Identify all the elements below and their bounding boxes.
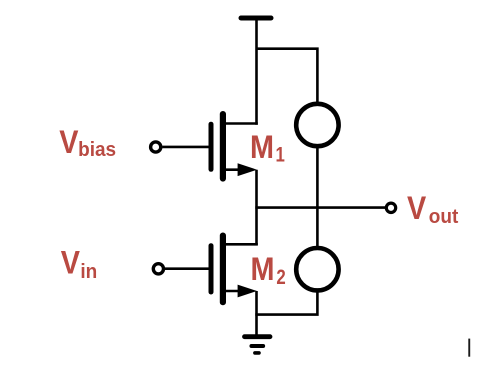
transistor M1 drain lead [224,122,258,125]
wire I1 to output node [316,146,319,248]
transistor M1 gate plate [209,124,214,169]
transistor M2 channel bar [220,236,226,303]
transistor M2 source arrow [238,285,257,298]
transistor M2 drain lead [224,243,258,246]
terminal Vout [386,203,395,212]
wire Vbias terminal to M1 gate [162,146,208,149]
transistor M1 channel bar [220,114,226,178]
terminal Vin [153,264,163,274]
current source I1 [296,104,338,146]
wire VDD branch to current source I1 [257,49,318,104]
svg-text:2: 2 [276,266,285,289]
wire output node to Vout terminal [255,206,386,209]
label Vin [61,245,98,283]
wire VDD to M1 drain [255,18,258,125]
terminal Vbias [151,142,161,152]
transistor M2 source lead [224,290,241,293]
svg-text:1: 1 [276,144,286,167]
label Vbias [59,125,116,161]
svg-text:M: M [251,252,275,288]
transistor M1 source arrow [238,163,257,176]
svg-text:V: V [59,125,79,161]
label M1 [250,129,285,167]
label Vout [407,191,459,228]
svg-text:V: V [61,245,81,281]
svg-text:out: out [429,205,459,228]
ground [245,337,271,353]
label M2 [251,252,286,290]
text cursor artifact [468,339,470,357]
wire Vin terminal to M2 gate [165,267,209,270]
svg-text:bias: bias [78,138,116,161]
current source I2 [296,248,338,290]
power rail VDD [241,16,271,21]
transistor M2 gate plate [209,246,214,292]
wire M1 source to M2 drain [255,170,258,246]
wire M2 source to ground [255,291,258,336]
transistor M1 source lead [224,168,241,171]
svg-text:M: M [250,129,274,165]
svg-text:in: in [80,261,97,284]
svg-text:V: V [407,191,427,227]
wire I2 to bottom node [255,290,317,314]
